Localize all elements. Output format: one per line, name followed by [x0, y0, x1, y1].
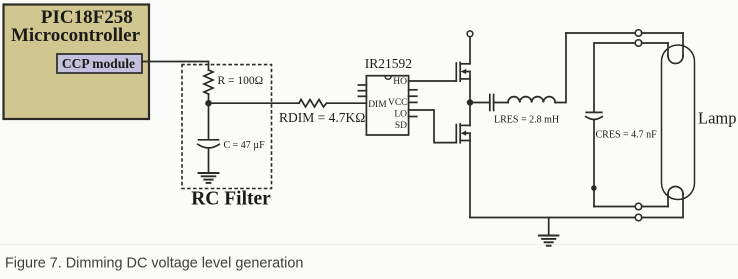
- RC filter dashed box: [182, 65, 272, 189]
- inner top rail: [594, 43, 635, 112]
- lamp bottom-right lead: [682, 194, 684, 218]
- wire node to RDIM: [209, 102, 300, 104]
- lamp top-right lead: [682, 33, 684, 56]
- lamp top filament: [668, 56, 683, 64]
- terminal circle T1: [635, 30, 642, 37]
- resistor R2 RDIM=4.7K (horizontal zigzag): [299, 100, 327, 107]
- lamp tube: [662, 45, 695, 200]
- supply terminal circle: [467, 31, 473, 37]
- capacitor C3 CRES=4.7nF: [586, 111, 602, 113]
- inner bottom rail: [594, 206, 635, 208]
- svg-text:HO: HO: [393, 77, 407, 87]
- svg-text:SD: SD: [395, 121, 407, 131]
- lamp bottom filament: [668, 187, 683, 194]
- wire node to C: [208, 103, 210, 139]
- svg-text:DIM: DIM: [368, 100, 387, 110]
- wire CCP to RC filter: [142, 62, 209, 71]
- CCP module box: [57, 54, 142, 73]
- lamp top-left lead: [667, 43, 669, 56]
- transistor Q1 (high-side MOSFET): [455, 63, 457, 81]
- wire rail to ground: [548, 218, 550, 236]
- capacitor C2 (DC blocking): [489, 95, 491, 111]
- svg-text:VCC: VCC: [388, 98, 408, 108]
- svg-text:CRES = 4.7 nF: CRES = 4.7 nF: [596, 130, 658, 141]
- svg-text:Lamp: Lamp: [698, 109, 737, 128]
- inductor L1 LRES=2.8mH: [508, 97, 555, 103]
- wire midpoint to C2: [470, 102, 490, 104]
- outer top rail: [566, 32, 635, 34]
- right pin stubs: [409, 89, 417, 91]
- wire R to node: [208, 94, 210, 103]
- transistor Q2 (low-side MOSFET): [455, 125, 457, 143]
- svg-text:RC Filter: RC Filter: [191, 189, 271, 210]
- svg-text:C = 47 µF: C = 47 µF: [224, 140, 266, 151]
- ground GND1: [199, 172, 219, 174]
- svg-text:IR21592: IR21592: [365, 56, 412, 71]
- svg-text:CCP module: CCP module: [62, 56, 135, 71]
- svg-text:Figure 7. Dimming DC voltage l: Figure 7. Dimming DC voltage level gener…: [5, 256, 303, 272]
- svg-text:Microcontroller: Microcontroller: [11, 25, 141, 46]
- wire C to ground: [208, 148, 210, 173]
- wire C2 to LRES: [494, 102, 508, 104]
- outer bottom rail: [470, 217, 635, 219]
- wire LO pin to Q2 gate: [409, 110, 457, 143]
- lamp bottom-left lead: [667, 194, 669, 207]
- wire LRES to top rail: [555, 33, 566, 103]
- IC U1 IR21592 box: [366, 76, 408, 135]
- left pin stubs: [358, 84, 366, 86]
- wire RDIM to DIM pin: [327, 102, 367, 104]
- figure bottom separator: [0, 244, 738, 246]
- node N2 half-bridge midpoint: [468, 100, 473, 105]
- svg-text:R = 100Ω: R = 100Ω: [218, 75, 264, 87]
- ground GND2: [539, 235, 558, 237]
- microcontroller U2 PIC18F258 box: [4, 5, 150, 120]
- wire HO pin to Q1 gate: [409, 80, 457, 82]
- svg-text:LO: LO: [394, 109, 407, 119]
- svg-text:RDIM = 4.7KΩ: RDIM = 4.7KΩ: [279, 110, 365, 125]
- resistor R1 R=100ohm (vertical zigzag): [204, 70, 213, 94]
- svg-text:LRES = 2.8 mH: LRES = 2.8 mH: [494, 114, 559, 125]
- node dot on CRES branch: [592, 186, 596, 190]
- pin-1 notch: [385, 76, 391, 79]
- capacitor C1 C=47uF: [199, 139, 219, 141]
- node N1 junction dot: [206, 101, 211, 106]
- terminal circle T2: [635, 40, 642, 47]
- terminal circle T4: [635, 214, 642, 221]
- terminal circle T3: [635, 203, 642, 210]
